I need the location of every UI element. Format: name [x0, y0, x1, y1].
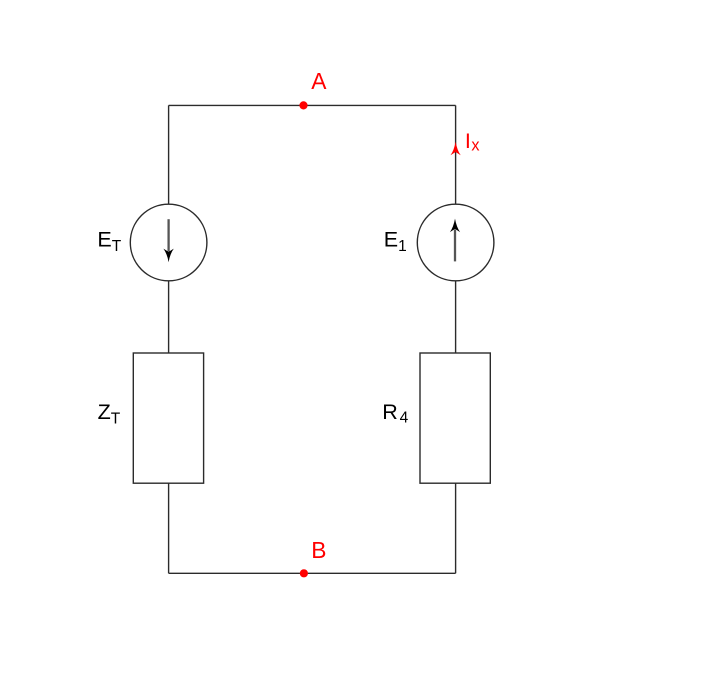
node B — [300, 569, 308, 577]
label Z_T — [98, 400, 121, 428]
svg-text:A: A — [311, 68, 327, 94]
current arrow Ix — [451, 142, 461, 156]
svg-text:ZT: ZT — [98, 400, 121, 428]
wire top horizontal (node A net) — [169, 104, 456, 106]
svg-text:ET: ET — [97, 228, 121, 256]
voltage source E_1 (circle with upward arrow) — [417, 204, 494, 281]
impedance Z_T (rectangle) — [133, 353, 203, 483]
label node B — [311, 537, 326, 563]
wire left vertical lower (Z_T to node B net) — [168, 483, 170, 573]
wire left middle (E_T to Z_T) — [168, 281, 170, 353]
svg-text:E1: E1 — [384, 228, 407, 256]
wire right vertical lower (R_4 to node B net) — [455, 483, 457, 573]
label E_T — [97, 228, 121, 256]
voltage source E_T (circle with downward arrow) — [130, 204, 207, 281]
label Ix — [465, 129, 480, 155]
wire right middle (E_1 to R_4) — [455, 281, 457, 353]
node A — [299, 101, 307, 109]
label E_1 — [384, 228, 407, 256]
resistor R_4 (rectangle) — [420, 353, 490, 483]
svg-text:R4: R4 — [382, 400, 408, 426]
wire right vertical upper — [455, 105, 457, 204]
svg-text:Ix: Ix — [465, 129, 480, 155]
wire bottom horizontal (node B net) — [169, 572, 456, 574]
label R_4 — [382, 400, 408, 426]
label node A — [311, 68, 327, 94]
wire left vertical upper — [168, 105, 170, 204]
svg-text:B: B — [311, 537, 326, 563]
